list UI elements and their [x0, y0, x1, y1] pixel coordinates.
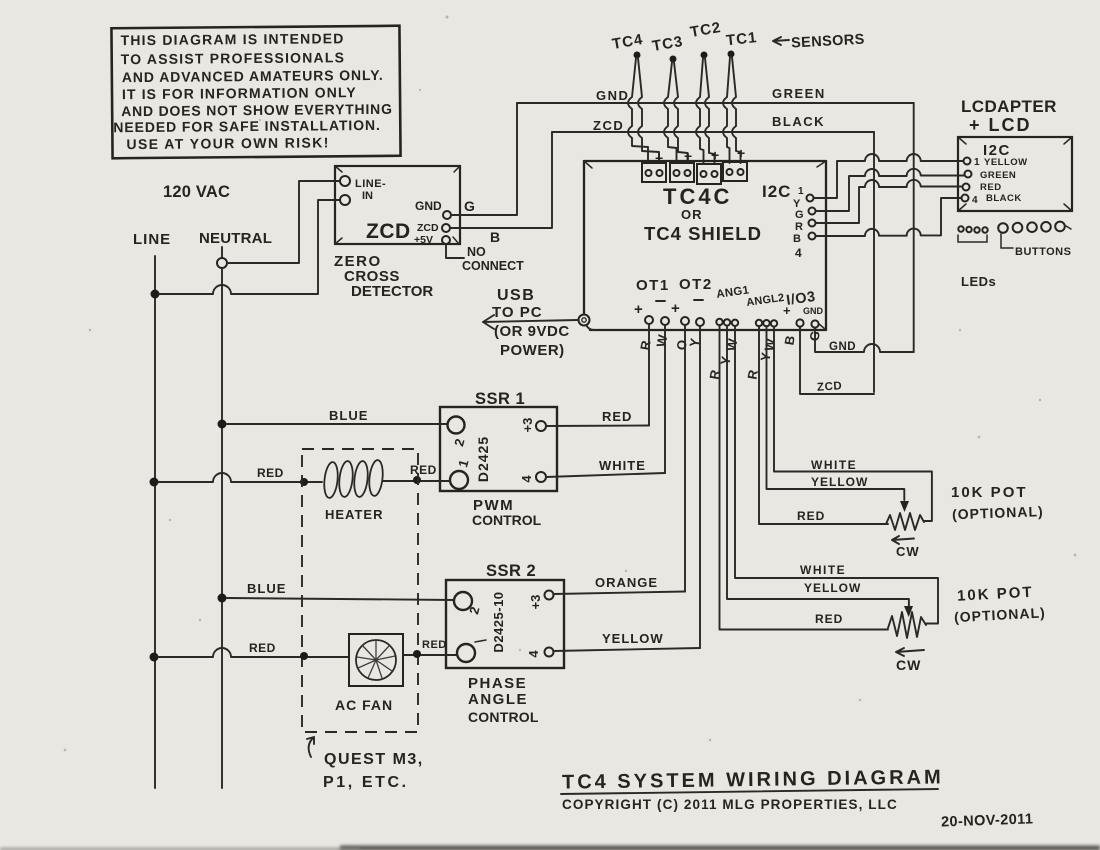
svg-text:WHITE: WHITE	[811, 458, 857, 472]
svg-text:GND: GND	[415, 199, 442, 213]
wire ORANGE SSR2 +3 to OT2+	[554, 592, 685, 595]
svg-text:+: +	[655, 150, 663, 166]
svg-text:(OPTIONAL): (OPTIONAL)	[952, 503, 1044, 522]
wire I2C black to LCDapter pin4	[816, 198, 961, 236]
wire OT2+ orange drop	[684, 325, 686, 592]
svg-text:+3: +3	[520, 418, 535, 433]
svg-text:4: 4	[519, 475, 534, 483]
pin OT2+	[681, 317, 689, 325]
svg-text:20-NOV-2011: 20-NOV-2011	[941, 811, 1034, 830]
svg-text:LCDAPTER: LCDAPTER	[961, 97, 1057, 116]
pin I2C G	[809, 208, 816, 215]
svg-text:CONNECT: CONNECT	[462, 259, 524, 273]
pin I2C Y	[807, 195, 814, 202]
svg-text:10K POT: 10K POT	[951, 484, 1028, 501]
wire GND bus horizontal (green)	[517, 102, 914, 104]
pin I2C B	[809, 233, 816, 240]
wire TC2 probe pair	[696, 58, 704, 163]
pin OT1-	[661, 317, 669, 325]
svg-text:+ LCD: + LCD	[969, 115, 1032, 135]
pin OT2-	[696, 318, 704, 326]
wire BLUE neutral to SSR2 pin2	[227, 598, 454, 600]
node NEUTRAL junction to SSR1	[218, 420, 227, 429]
svg-text:TO ASSIST PROFESSIONALS: TO ASSIST PROFESSIONALS	[121, 49, 346, 67]
wire I2C red to LCDapter pin3	[816, 180, 962, 223]
svg-text:WHITE: WHITE	[599, 458, 646, 473]
svg-text:LINE-: LINE-	[355, 178, 386, 190]
wire ANG1 red drop to pot2	[720, 325, 889, 630]
svg-text:(OR 9VDC: (OR 9VDC	[494, 323, 570, 340]
TC4C shield box left edge	[583, 161, 585, 313]
svg-text:+: +	[634, 301, 643, 318]
pins ANG1	[716, 319, 722, 325]
svg-text:RED: RED	[422, 639, 447, 651]
svg-text:RED: RED	[249, 641, 276, 655]
svg-text:TC4C: TC4C	[663, 184, 732, 209]
pin ZCD	[442, 224, 450, 232]
wire no-connect stub	[446, 244, 464, 258]
pin SSR2-1	[457, 644, 475, 662]
svg-text:D2425-10: D2425-10	[491, 591, 506, 652]
pin LCDapter red	[963, 184, 970, 191]
node LINE junction to heater	[150, 478, 159, 487]
svg-text:QUEST M3,: QUEST M3,	[324, 751, 424, 768]
title underline	[561, 789, 938, 794]
sensor TC4 probe node	[634, 52, 641, 59]
svg-text:OR: OR	[681, 207, 703, 222]
paper speckles	[64, 16, 1077, 752]
wire OT1+ red drop	[648, 324, 650, 426]
pin LCDapter 1 yellow	[964, 158, 971, 165]
svg-text:POWER): POWER)	[500, 342, 565, 359]
svg-text:BLUE: BLUE	[329, 408, 368, 423]
wire GND return from IO3 to green drop	[815, 328, 914, 352]
pin SSR1 4	[536, 472, 546, 482]
wire TC3 probe pair	[664, 62, 677, 163]
wire TC4 probe pair	[628, 58, 648, 163]
pin SSR2 +3	[545, 591, 554, 600]
TC4C shield box right edge	[825, 161, 827, 330]
svg-text:YELLOW: YELLOW	[804, 581, 861, 595]
svg-text:USB: USB	[497, 287, 535, 304]
svg-text:HEATER: HEATER	[325, 507, 383, 522]
svg-text:B: B	[793, 233, 801, 245]
dashed appliance box	[302, 449, 418, 732]
wire line to ZCD LINE-IN pin2 with hop over neutral	[159, 200, 339, 294]
node heater right terminal	[413, 476, 421, 484]
svg-text:DETECTOR: DETECTOR	[351, 283, 433, 300]
pin +5V	[442, 236, 450, 244]
svg-text:1: 1	[798, 186, 804, 197]
svg-text:RED: RED	[815, 612, 843, 626]
svg-text:BLACK: BLACK	[986, 193, 1022, 204]
node NEUTRAL junction to SSR2	[218, 594, 227, 603]
sensor TC1 probe node	[728, 51, 735, 58]
svg-text:RED: RED	[410, 463, 437, 477]
svg-text:D2425: D2425	[475, 436, 491, 482]
svg-text:USE AT YOUR OWN RISK!: USE AT YOUR OWN RISK!	[126, 134, 330, 152]
svg-text:YELLOW: YELLOW	[602, 631, 664, 646]
pin IO3 GND	[811, 320, 818, 327]
node NEUTRAL terminal circle	[217, 258, 227, 268]
svg-text:GREEN: GREEN	[980, 170, 1016, 181]
wire B from ZCD to ZCD bus	[450, 132, 552, 228]
pot1 wiper arrowhead	[900, 501, 909, 512]
svg-text:OT1: OT1	[636, 277, 670, 294]
svg-text:COPYRIGHT (C) 2011 MLG PROPERT: COPYRIGHT (C) 2011 MLG PROPERTIES, LLC	[562, 797, 898, 812]
svg-text:NO: NO	[467, 245, 486, 259]
svg-text:ZCD: ZCD	[817, 380, 843, 394]
svg-text:CW: CW	[896, 657, 921, 673]
svg-text:BLACK: BLACK	[772, 114, 825, 129]
heater coil	[323, 459, 385, 498]
terminal block TC2	[697, 164, 721, 184]
wire ANGL2 yellow drop to pot1 wiper	[767, 326, 905, 500]
wire OT2- yellow drop	[699, 326, 701, 648]
svg-text:+: +	[783, 303, 791, 318]
svg-text:4: 4	[526, 650, 541, 658]
svg-text:RED: RED	[797, 509, 825, 523]
pin SSR2 4	[545, 648, 554, 657]
buttons bracket	[1001, 234, 1013, 248]
wire NEUTRAL rail vertical	[221, 247, 223, 788]
TC4C shield box top edge	[584, 160, 826, 162]
svg-text:GREEN: GREEN	[772, 86, 826, 101]
terminal block TC4	[642, 163, 666, 182]
svg-text:IT IS FOR INFORMATION ONLY: IT IS FOR INFORMATION ONLY	[122, 84, 357, 102]
svg-text:ORANGE: ORANGE	[595, 575, 658, 590]
svg-text:YELLOW: YELLOW	[811, 475, 868, 489]
pot2 wiper arrowhead	[904, 606, 913, 617]
svg-text:GND: GND	[803, 306, 824, 316]
pin SSR1-1	[450, 471, 468, 489]
svg-text:ZCD: ZCD	[417, 222, 439, 234]
wire heater to SSR1 pin1	[383, 480, 450, 482]
disclaimer note box	[111, 26, 400, 159]
svg-text:4: 4	[972, 195, 978, 206]
wire BLACK vertical drop	[873, 132, 875, 392]
svg-text:OT2: OT2	[679, 276, 713, 293]
svg-text:I2C: I2C	[762, 182, 791, 201]
buttons row	[998, 223, 1008, 233]
svg-text:LINE: LINE	[133, 231, 171, 248]
svg-text:GND: GND	[829, 341, 856, 353]
TC4C shield box bottom edge	[590, 329, 826, 331]
svg-text:RED: RED	[602, 409, 632, 424]
wire ANGL2 white drop to pot1 right	[774, 327, 932, 521]
svg-text:BLUE: BLUE	[247, 581, 286, 596]
node heater left terminal	[300, 478, 308, 486]
pot1 CW arrow	[892, 536, 914, 544]
svg-text:TC4 SHIELD: TC4 SHIELD	[644, 223, 762, 244]
wire RED line to heater with hop over neutral	[158, 473, 322, 482]
wire RED line to fan with hop over neutral	[158, 648, 349, 657]
node LINE junction to ZCD	[151, 290, 160, 299]
svg-text:WHITE: WHITE	[800, 563, 846, 577]
wire BLUE neutral to SSR1 pin2	[227, 423, 447, 425]
wire GREEN vertical drop	[913, 103, 915, 352]
LCDapter LCD box	[958, 137, 1072, 211]
wire ANG1 white drop to pot2 right	[735, 326, 938, 624]
node LINE junction to fan	[150, 653, 159, 662]
pin GND	[443, 211, 451, 219]
svg-text:CONTROL: CONTROL	[468, 709, 539, 725]
LCDapter corner ticks	[958, 137, 1072, 211]
pin SSR2-2	[454, 592, 472, 610]
wire OT1- white drop	[664, 325, 666, 473]
wire ZCD bus horizontal (black)	[552, 131, 874, 133]
pins ANGL2	[756, 320, 762, 326]
svg-text:ZCD: ZCD	[366, 220, 411, 243]
terminal block TC3	[670, 163, 694, 182]
wire YELLOW SSR2 4 to OT2-	[554, 648, 700, 651]
wire ANG1 yellow drop to pot2 wiper	[727, 326, 909, 606]
svg-text:TO PC: TO PC	[492, 304, 543, 321]
pin LINE-IN 2	[340, 195, 350, 205]
op-board ZCD zero cross detector box	[335, 166, 460, 244]
wire fan to SSR2 pin1	[403, 654, 457, 656]
wire ANGL2 red drop to pot1	[759, 326, 888, 524]
pin SSR1 +3	[536, 421, 546, 431]
pin OT1+	[645, 316, 653, 324]
svg-text:120 VAC: 120 VAC	[163, 183, 230, 201]
svg-text:SSR 1: SSR 1	[475, 390, 525, 408]
svg-text:TC1: TC1	[725, 29, 758, 49]
sensor TC2 probe node	[701, 52, 708, 59]
svg-text:R: R	[795, 221, 803, 233]
svg-text:+3: +3	[528, 595, 543, 610]
SSR1 box	[440, 407, 557, 491]
svg-text:ANGLE: ANGLE	[468, 691, 528, 708]
svg-text:CONTROL: CONTROL	[472, 512, 542, 528]
svg-text:GND: GND	[596, 88, 629, 103]
svg-text:LEDs: LEDs	[961, 274, 996, 289]
svg-text:CW: CW	[896, 544, 920, 559]
svg-text:PHASE: PHASE	[468, 675, 527, 692]
svg-text:B: B	[490, 229, 500, 245]
pin IO3+	[796, 319, 803, 326]
pin I2C R	[809, 220, 816, 227]
svg-text:THIS DIAGRAM IS INTENDED: THIS DIAGRAM IS INTENDED	[120, 30, 344, 48]
svg-text:4: 4	[795, 246, 802, 260]
svg-text:AND ADVANCED AMATEURS ONLY.: AND ADVANCED AMATEURS ONLY.	[122, 67, 384, 85]
pin LCDapter green	[965, 171, 972, 178]
pin LINE-IN 1	[340, 176, 350, 186]
svg-text:NEEDED FOR SAFE INSTALLATION.: NEEDED FOR SAFE INSTALLATION.	[113, 117, 381, 135]
label QUEST M3 P1 ETC with arrow	[307, 737, 314, 757]
pin LCDapter 4 black	[962, 195, 969, 202]
wire I2C yellow to LCDapter pin1	[814, 154, 963, 198]
node fan right terminal	[413, 650, 421, 658]
wire I2C green to LCDapter pin2	[816, 169, 964, 211]
svg-text:G: G	[795, 209, 804, 221]
wire G from ZCD to GND bus	[451, 103, 517, 215]
wire WHITE SSR1 4 to OT1-	[546, 473, 665, 477]
svg-text:AC FAN: AC FAN	[335, 697, 393, 713]
svg-text:BUTTONS: BUTTONS	[1015, 246, 1071, 258]
svg-text:G: G	[464, 198, 475, 214]
potentiometer R2 10K zigzag	[888, 612, 926, 638]
wire LINE rail vertical	[154, 256, 156, 788]
svg-text:+5V: +5V	[414, 234, 433, 246]
svg-text:RED: RED	[980, 182, 1002, 193]
label SENSORS with arrow	[773, 37, 789, 45]
svg-text:+: +	[737, 145, 745, 161]
sensor TC3 probe node	[670, 56, 677, 63]
USB connector node on shield	[579, 315, 590, 326]
svg-text:+: +	[671, 300, 680, 317]
wire ZCD return from IO3 to black drop	[800, 327, 874, 394]
svg-text:P1, ETC.: P1, ETC.	[323, 774, 409, 791]
ZCD corner ticks	[335, 166, 460, 244]
wire USB arrow	[483, 315, 578, 329]
SSR2 box	[446, 580, 564, 668]
svg-text:ZCD: ZCD	[593, 118, 624, 133]
svg-text:NEUTRAL: NEUTRAL	[199, 230, 272, 247]
LEDs row	[958, 226, 963, 231]
AC fan box	[349, 634, 403, 686]
pot2 CW arrow	[896, 648, 924, 656]
wire neutral to ZCD LINE-IN pin1	[227, 181, 339, 263]
terminal block TC1	[723, 162, 747, 181]
svg-text:IN: IN	[362, 190, 373, 202]
svg-text:SSR 2: SSR 2	[486, 562, 536, 580]
wire RED SSR1 +3 to OT1+	[546, 425, 649, 428]
svg-text:YELLOW: YELLOW	[984, 157, 1028, 168]
node fan left terminal	[300, 652, 308, 660]
wire TC1 probe pair	[723, 57, 730, 163]
AC fan rotor	[356, 640, 396, 680]
LEDs bracket	[958, 235, 987, 242]
potentiometer R1 10K zigzag	[886, 513, 924, 530]
shield corner ticks	[584, 161, 826, 330]
svg-text:RED: RED	[257, 466, 284, 480]
svg-text:1: 1	[974, 157, 980, 168]
pin SSR1-2	[448, 417, 465, 434]
